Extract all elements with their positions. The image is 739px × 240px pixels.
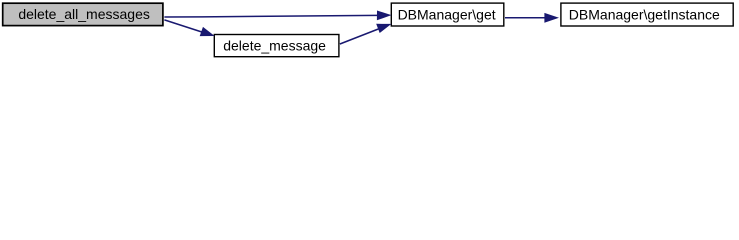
node DBManager\getInstance xyxy=(561,3,733,26)
wire DBManager\get -> DBManager\getInstance xyxy=(505,14,557,22)
node delete_all_messages xyxy=(3,3,163,25)
svg-text:delete_all_messages: delete_all_messages xyxy=(18,6,150,22)
svg-text:DBManager\get: DBManager\get xyxy=(398,6,496,22)
wire delete_all_messages -> delete_message xyxy=(164,20,213,36)
wire delete_message -> DBManager\get xyxy=(340,24,390,44)
node DBManager\get xyxy=(391,3,504,26)
wire delete_all_messages -> DBManager\get xyxy=(164,11,390,19)
node delete_message xyxy=(214,35,339,57)
svg-text:delete_message: delete_message xyxy=(223,38,326,54)
svg-text:DBManager\getInstance: DBManager\getInstance xyxy=(569,6,720,22)
